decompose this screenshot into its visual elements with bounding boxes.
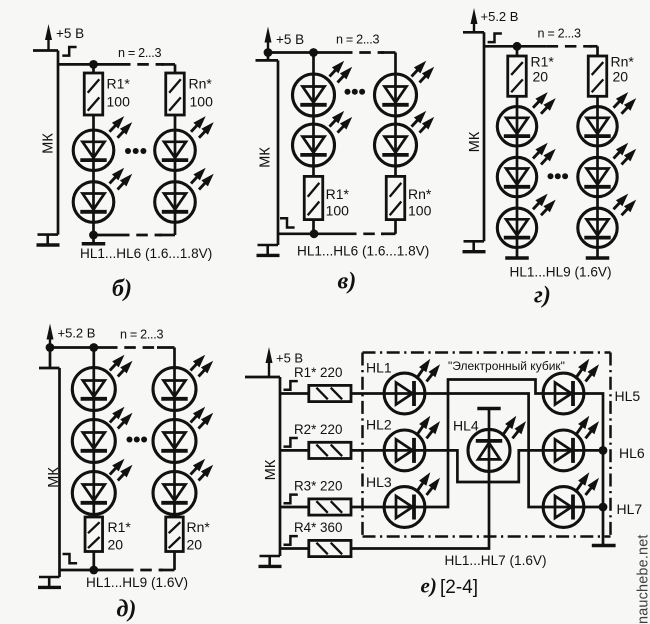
LED HL2 (d) (92, 420, 95, 463)
wire R3 to HL3 (e) (351, 506, 384, 509)
wire rail to Rn (g) (596, 46, 599, 56)
LED HL3 (e) (384, 506, 425, 509)
light arrows HL2 (d) (110, 413, 119, 423)
svg-text:100: 100 (107, 93, 131, 109)
LED HL5 (e) (543, 392, 584, 395)
svg-text:в): в) (338, 269, 357, 295)
wire LED to R1 (v) (312, 166, 315, 176)
MK top line (v) (256, 59, 279, 62)
MK chassis ground (b) (38, 233, 59, 236)
svg-text:МК: МК (258, 147, 274, 168)
MK chassis ground (d) (39, 576, 60, 579)
wire between LEDs (v branch n) (394, 116, 397, 124)
pulse edge symbol (e pin 4) (284, 536, 298, 545)
light arrows HL7 (e) (576, 480, 585, 492)
svg-text:HL7: HL7 (617, 501, 643, 517)
ground bar (g branch n) (596, 248, 599, 259)
light arrows HL6 (e) (576, 423, 585, 435)
top rail wire (g) (484, 45, 547, 48)
bottom rail wire (b) (94, 234, 119, 237)
ground bar (e right rail) (592, 544, 616, 548)
pulse edge symbol (v) (280, 218, 295, 227)
wire LED1-LED2 (g branch n) (596, 146, 599, 157)
wire LED2-LED3 (d branch1) (92, 463, 95, 472)
svg-text:n = 2...3: n = 2...3 (538, 27, 581, 41)
pulse edge symbol (e pin 1) (284, 381, 298, 390)
svg-text:+5.2 В: +5.2 В (481, 9, 519, 24)
MK top line (d) (39, 367, 60, 370)
light arrows HL2 (g) (533, 149, 542, 159)
LED HL5 (v branch n) (394, 124, 397, 166)
cube dash-dot box (363, 351, 611, 354)
svg-text:МК: МК (263, 459, 279, 480)
svg-text:HL1...HL6 (1.6...1.8V): HL1...HL6 (1.6...1.8V) (297, 244, 429, 259)
junction node branch1 (d) (89, 343, 98, 352)
light arrows HL1 (v) (330, 67, 339, 77)
svg-text:д): д) (117, 597, 137, 623)
MK chassis ground (g) (464, 240, 485, 243)
wire MK pin 4 to R4 (e) (280, 547, 309, 550)
svg-text:HL4: HL4 (453, 417, 479, 433)
resistor R1 (d) (85, 517, 103, 552)
wire LED to bottom node (b) (92, 222, 95, 235)
svg-text:б): б) (112, 276, 132, 302)
wire LED1-LED2 (d branch1) (92, 411, 95, 420)
light arrows (v branch n LED1) (412, 67, 421, 77)
resistor Rn (d) (166, 517, 184, 552)
svg-text:HL1...HL6 (1.6...1.8V): HL1...HL6 (1.6...1.8V) (80, 246, 212, 261)
svg-text:HL5: HL5 (615, 388, 641, 404)
MK chassis ground (v) (258, 244, 279, 247)
top rail dashed wire (b) (119, 63, 164, 66)
svg-text:[2-4]: [2-4] (440, 577, 478, 598)
svg-text:Rn*: Rn* (408, 186, 432, 202)
top rail wire (b) (58, 63, 119, 66)
MK body line (b) (57, 51, 60, 235)
wire LED to bottom rail (b branch n) (174, 222, 177, 235)
svg-text:"Электронный кубик": "Электронный кубик" (448, 359, 565, 373)
light arrows HL3 (e) (417, 480, 426, 492)
svg-text:R1*: R1* (107, 76, 131, 92)
top rail wire to branch n (b) (161, 63, 175, 66)
light arrows HL1 (d) (110, 361, 119, 371)
junction node HL6 (e) (599, 446, 608, 455)
light arrows HL3 (d) (110, 465, 119, 475)
LED HL1 (g) (516, 107, 519, 146)
svg-text:HL2: HL2 (366, 416, 392, 432)
circuit e: power +5V arrow (268, 360, 270, 377)
ground bar (b LEDs) (92, 235, 95, 244)
wire HL5 cathode to ground rail (e) (584, 394, 603, 546)
LED HL3 (g) (516, 208, 519, 247)
MK body line (v) (277, 60, 280, 245)
svg-text:20: 20 (613, 69, 629, 85)
svg-text:R1*: R1* (108, 519, 132, 535)
wire LED3 to R1 (d) (92, 515, 95, 518)
bottom node (v) (310, 229, 319, 238)
wire R1 to HL1 (e) (351, 392, 384, 395)
wire LED1-LED2 (g branch1) (516, 146, 519, 157)
LED HL4 (v branch n) (394, 74, 397, 116)
bottom rail dashed wire (v) (345, 232, 384, 235)
wire LED3 to Rn (d) (173, 515, 176, 518)
wire rail to HL (v branch1) (312, 53, 315, 75)
svg-text:МК: МК (41, 133, 57, 154)
svg-text:20: 20 (533, 69, 549, 85)
bottom rail wire end (v) (381, 232, 396, 235)
light arrows HL5 (e) (576, 366, 585, 378)
wire R2 to HL2 (e) (351, 449, 384, 452)
svg-text:nauchebe.net: nauchebe.net (636, 534, 650, 624)
bottom rail wire end (b) (159, 234, 175, 237)
top rail wire to branch n (d) (157, 346, 175, 349)
wire rail to HL (v branch n) (394, 53, 397, 75)
top rail wire (v) (268, 51, 341, 54)
light arrows HL3 (g) (533, 200, 542, 210)
LED HL4 (e) (488, 429, 491, 471)
pulse edge symbol (b) (62, 47, 76, 56)
svg-text:+5 В: +5 В (56, 26, 84, 41)
bottom rail wire end (d) (160, 569, 175, 572)
ground bar (e HL4) (477, 407, 500, 411)
svg-text:R3* 220: R3* 220 (294, 479, 342, 494)
svg-text:100: 100 (326, 203, 350, 219)
wire HL2 to HL6 bypass (e) (425, 450, 543, 482)
LED HL9 (d branch n) (173, 472, 176, 515)
light arrows (d branch n LED2) (191, 413, 200, 423)
svg-text:n = 2...3: n = 2...3 (118, 46, 161, 60)
MK top pin wire (g) (463, 31, 484, 34)
LED HL6 (e) (543, 449, 584, 452)
svg-text:R1*: R1* (531, 54, 555, 70)
power junction node (v) (264, 48, 273, 57)
wire LED2-LED3 (g branch n) (596, 197, 599, 209)
LED HL1 (v) (312, 74, 315, 116)
pulse edge symbol (e pin 2) (284, 438, 298, 447)
LED HL6 (b branch n) (174, 182, 177, 223)
bottom rail wire (d) (60, 569, 123, 572)
top rail wire to branch n (v) (381, 51, 396, 54)
LED HL7 (e) (543, 506, 584, 509)
LED HL1 (b) (92, 130, 95, 171)
wire rail to R1 (b) (92, 64, 95, 73)
circuit v: power +5V arrow (267, 40, 269, 53)
light arrows (b branch n LED1) (191, 122, 200, 132)
svg-text:100: 100 (190, 93, 214, 109)
wire between LEDs (v branch1) (312, 116, 315, 124)
wire LED2-LED3 (d branch n) (173, 463, 176, 472)
bottom rail dashed wire (b) (118, 234, 162, 237)
top rail dashed wire (v) (341, 51, 384, 54)
wire Rn to bottom rail (d) (173, 552, 176, 571)
wire between LEDs (b branch1) (92, 171, 95, 182)
resistor R1 (e) (309, 385, 351, 401)
wire rail to Rn (b) (174, 64, 177, 73)
resistor R1 (b) (84, 73, 103, 115)
LED HL2 (e) (384, 449, 425, 452)
svg-text:HL6: HL6 (619, 445, 645, 461)
resistor R2 (e) (309, 442, 351, 458)
MK body line (g) (483, 32, 486, 241)
wire R1 to HL (b) (92, 115, 95, 130)
light arrows (d branch n LED1) (191, 361, 200, 371)
resistor R3 (e) (309, 499, 351, 515)
MK body line (d) (58, 368, 61, 577)
wire R1 to bottom rail (d) (92, 552, 95, 571)
LED HL8 (d branch n) (173, 420, 176, 463)
svg-text:HL1...HL7 (1.6V): HL1...HL7 (1.6V) (445, 553, 547, 568)
LED HL9 (g branch n) (596, 208, 599, 247)
svg-text:R2* 220: R2* 220 (294, 422, 342, 437)
LED HL2 (v) (312, 124, 315, 166)
LED HL7 (d branch n) (173, 368, 176, 411)
svg-text:R1* 220: R1* 220 (294, 365, 342, 380)
wire R1 to HL (g) (516, 96, 519, 107)
wire LED to Rn (v) (394, 166, 397, 176)
wire HL6 cathode (e) (584, 449, 603, 452)
svg-text:HL1...HL9 (1.6V): HL1...HL9 (1.6V) (86, 575, 188, 590)
LED HL7 (g branch n) (596, 107, 599, 146)
svg-text:г): г) (534, 283, 551, 309)
junction node HL7 (e) (599, 503, 608, 512)
wire rail to HL (d branch1) (92, 348, 95, 368)
wire between LEDs (b branch n) (174, 171, 177, 182)
svg-text:Rn*: Rn* (189, 76, 213, 92)
light arrows HL2 (e) (417, 423, 426, 435)
resistor R1 (g) (508, 56, 527, 96)
LED HL8 (g branch n) (596, 157, 599, 196)
LED HL3 (d) (92, 472, 95, 515)
top rail wire (d) (50, 346, 106, 349)
junction node (b top) (89, 60, 98, 69)
wire HL7 cathode (e) (584, 506, 603, 509)
light arrows (v branch n LED2) (412, 117, 421, 127)
bottom node (d) (89, 566, 98, 575)
resistor Rn (b) (166, 73, 185, 115)
LED HL1 (d) (92, 368, 95, 411)
pulse edge symbol (e pin 3) (284, 495, 298, 504)
wire MK pin 2 to R2 (e) (280, 449, 309, 452)
wire MK pin 3 to R3 (e) (280, 506, 309, 509)
bottom node (b) (89, 231, 98, 240)
svg-text:R4* 360: R4* 360 (294, 520, 342, 535)
wire HL3 to HL5 (e) (425, 380, 543, 508)
light arrows (g branch n LED2) (614, 149, 623, 159)
power junction node (d) (46, 343, 55, 352)
wire R4 to HL4 (e) (351, 472, 489, 549)
wire Rn to HL (g) (596, 96, 599, 107)
resistor Rn (v) (386, 176, 405, 219)
bottom rail dashed wire (d) (122, 569, 163, 572)
top rail dashed wire (d) (106, 346, 160, 349)
ellipsis dots (g) (548, 173, 554, 179)
svg-text:HL1: HL1 (366, 359, 392, 375)
svg-text:HL1...HL9 (1.6V): HL1...HL9 (1.6V) (510, 264, 612, 279)
svg-text:МК: МК (46, 467, 62, 488)
wire HL4 cathode up (e) (488, 410, 491, 430)
MK chassis ground (e) (260, 555, 281, 558)
wire Rn to bottom rail (v) (394, 220, 397, 234)
circuit b: power +5V arrow (47, 37, 49, 51)
svg-text:Rn*: Rn* (611, 54, 635, 70)
wire Rn to HL (b) (174, 115, 177, 130)
ground bar (g branch1) (516, 248, 519, 259)
svg-text:е): е) (421, 574, 437, 598)
wire R1 to bottom rail (v) (312, 220, 315, 234)
ellipsis dots (d) (127, 437, 133, 443)
circuit g: power +5.2V arrow (473, 21, 475, 32)
LED HL2 (b) (92, 182, 95, 223)
top rail dashed wire (g) (547, 45, 592, 48)
LED HL1 (e) (384, 392, 425, 395)
wire MK pin 1 to R1 (e) (280, 392, 309, 395)
ellipsis dots (b) (125, 148, 131, 154)
LED HL5 (b branch n) (174, 130, 177, 171)
svg-text:100: 100 (408, 203, 432, 219)
bottom rail wire (v) (278, 232, 345, 235)
light arrows HL2 (b) (110, 174, 119, 184)
light arrows HL2 (v) (330, 117, 339, 127)
junction node (g) (513, 42, 522, 51)
svg-text:HL3: HL3 (366, 474, 392, 490)
resistor R4 (e) (309, 540, 351, 556)
wire rail to HL (d branch n) (173, 348, 176, 368)
svg-text:20: 20 (108, 537, 124, 553)
light arrows HL1 (g) (533, 98, 542, 108)
MK top pin wire (e) (245, 376, 280, 379)
pulse edge symbol (g) (488, 34, 502, 43)
svg-text:Rn*: Rn* (187, 519, 211, 535)
resistor R1 (v) (304, 176, 323, 219)
MK top pin wire (b) (33, 49, 58, 52)
light arrows HL1 (b) (110, 122, 119, 132)
svg-text:+5 В: +5 В (276, 351, 303, 366)
light arrows (g branch n LED3) (614, 200, 623, 210)
svg-text:n = 2...3: n = 2...3 (336, 33, 379, 47)
light arrows HL4 (e) (503, 423, 512, 435)
light arrows HL1 (e) (417, 366, 426, 378)
svg-text:МК: МК (467, 131, 483, 152)
MK power stub wire (v) (267, 53, 270, 61)
light arrows (d branch n LED3) (191, 465, 200, 475)
resistor Rn (g) (588, 56, 607, 96)
LED HL2 (g) (516, 157, 519, 196)
ellipsis dots (v) (345, 89, 351, 95)
svg-text:R1*: R1* (326, 186, 350, 202)
svg-text:n = 2...3: n = 2...3 (120, 328, 163, 342)
MK body line (e) (279, 377, 282, 556)
wire HL1 to HL7 (e) (425, 394, 543, 508)
wire LED2-LED3 (g branch1) (516, 197, 519, 209)
circuit d: power +5.2V arrow (49, 337, 51, 348)
wire rail to R1 (g) (516, 46, 519, 56)
wire LED1-LED2 (d branch n) (173, 411, 176, 420)
light arrows (g branch n LED1) (614, 98, 623, 108)
MK power stub wire (d) (49, 348, 52, 369)
svg-text:20: 20 (187, 537, 203, 553)
light arrows (b branch n LED2) (191, 174, 200, 184)
svg-text:+5 В: +5 В (276, 32, 304, 47)
junction node branch1 (v) (309, 48, 318, 57)
svg-text:+5.2 В: +5.2 В (58, 326, 96, 341)
pulse edge symbol (d) (63, 554, 78, 563)
top rail wire to branch n (g) (589, 45, 598, 48)
